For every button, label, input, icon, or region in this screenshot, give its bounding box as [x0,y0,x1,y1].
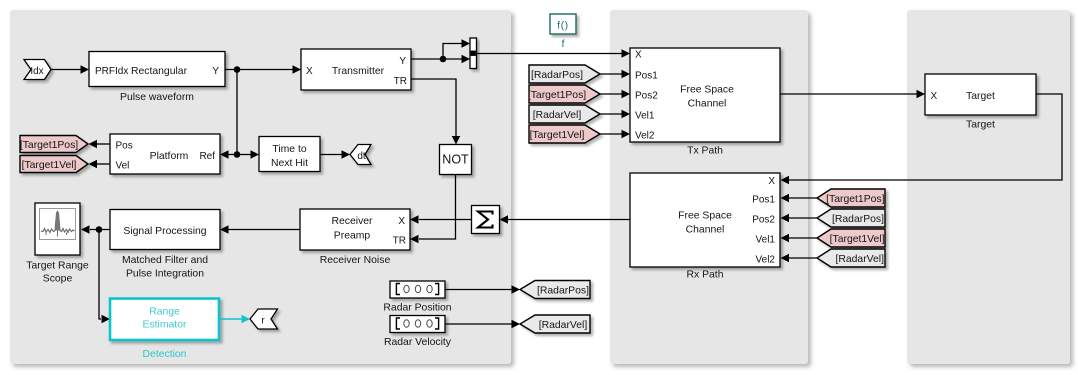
svg-text:[Target1Pos]: [Target1Pos] [826,194,884,205]
output port r [250,309,278,329]
svg-text:Detection: Detection [143,349,187,360]
svg-text:f(): f() [557,21,569,32]
svg-text:PRFIdx: PRFIdx [95,66,128,77]
svg-text:Pulse waveform: Pulse waveform [120,92,194,103]
svg-text:[RadarVel]: [RadarVel] [835,254,884,265]
svg-text:Target: Target [966,91,995,102]
svg-text:X: X [931,91,938,102]
junction dot on scope wire [96,226,103,233]
svg-text:[RadarPos]: [RadarPos] [531,70,583,81]
svg-text:Radar Velocity: Radar Velocity [384,337,452,348]
junction dot at Ref branch [234,151,241,158]
wire from Target1Pos to Pos2 [600,90,630,98]
block NOT [440,145,472,175]
svg-text:X: X [306,66,313,77]
svg-text:Free Space: Free Space [680,85,734,96]
svg-text:Tx Path: Tx Path [687,146,723,157]
wire from RadarPos to Pos1 [600,70,630,78]
goto tag RadarPos [520,281,590,299]
from tag RadarVel (Tx side) [529,105,600,123]
svg-text:Scope: Scope [43,274,73,285]
svg-text:Pos2: Pos2 [635,91,658,102]
svg-text:[Target1Vel]: [Target1Vel] [830,234,885,245]
constant block Radar Velocity [0 0 0] [390,316,445,333]
svg-text:Vel1: Vel1 [635,111,655,122]
wire from Target1Pos to Rx Pos1 [781,194,818,202]
svg-text:Pos1: Pos1 [635,71,658,82]
svg-text:X: X [635,50,642,61]
svg-text:Target: Target [966,120,995,131]
junction dot at Y branch [234,66,241,73]
svg-text:Pos1: Pos1 [752,195,775,206]
from tag Target1Pos (Rx side) [817,189,885,207]
wire Idx to PRFIdx input [51,65,89,73]
block Receiver Preamp (Receiver Noise) [300,209,410,250]
svg-text:[RadarVel]: [RadarVel] [533,110,582,121]
svg-text:Vel: Vel [116,160,130,171]
svg-text:[Target1Vel]: [Target1Vel] [530,130,585,141]
svg-text:[Target1Pos]: [Target1Pos] [528,90,586,101]
svg-text:Receiver Noise: Receiver Noise [320,255,391,266]
svg-text:Free Space: Free Space [678,211,732,222]
svg-text:Channel: Channel [688,99,727,110]
goto tag RadarVel [520,315,590,333]
block Range Estimator (highlighted) [110,299,219,341]
wire to Platform Ref [220,150,237,158]
panel Radar (left area) [10,10,511,364]
from tag RadarPos (Rx side) [817,209,885,227]
wire Y out of PRFIdx to Transmitter X [225,65,301,73]
wire from RadarVel to Rx Vel2 [781,254,818,262]
wire Target output to Rx Path X [781,94,1063,184]
wire Transmitter Y to mux lower input [411,55,470,63]
wire branch up to mux upper input [443,39,470,59]
wire Rx Path output to Sum [500,215,631,223]
block Time to Next Hit [259,137,320,172]
input port Idx [24,60,51,80]
svg-text:Rectangular: Rectangular [131,66,188,77]
svg-text:dt: dt [357,151,366,162]
wire from Target1Vel to Rx Vel1 [781,234,818,242]
wire mux output to Tx Path X [477,49,631,57]
wire from RadarPos to Rx Pos2 [781,214,818,222]
from tag RadarPos (Tx side) [529,65,600,83]
wire Radar Position to goto RadarPos [445,285,520,293]
svg-text:Y: Y [212,66,219,77]
svg-text:Platform: Platform [150,151,189,162]
block f() simulink function [550,14,576,34]
panel Target (right area) [907,10,1070,364]
mux bus bar [470,38,477,69]
svg-text:Pos: Pos [116,140,133,151]
svg-text:Next Hit: Next Hit [271,158,308,169]
svg-text:TR: TR [393,235,406,246]
svg-text:X: X [398,216,405,227]
goto tag Target1Vel (from Platform Vel) [20,156,88,173]
svg-text:Range: Range [149,307,180,318]
wire from Target1Vel to Vel2 [600,130,630,138]
svg-text:Target Range: Target Range [26,261,89,272]
wire Radar Velocity to goto RadarVel [445,320,520,328]
svg-text:Signal Processing: Signal Processing [123,226,206,237]
block Platform [110,134,220,174]
from tag Target1Pos (Tx side) [528,85,600,103]
svg-text:Pos2: Pos2 [752,215,775,226]
goto tag Target1Pos (from Platform Pos) [20,136,88,153]
wire NOT output to Receiver Preamp TR [410,175,456,244]
block PRFIdx Rectangular (Pulse waveform) [89,52,225,87]
svg-text:Idx: Idx [30,66,43,77]
wire branch down to Range Estimator [99,230,110,324]
svg-text:Ref: Ref [199,151,215,162]
wire Platform Vel to goto tag [89,160,111,168]
svg-text:Time to: Time to [272,144,306,155]
svg-text:Channel: Channel [686,225,725,236]
svg-text:Preamp: Preamp [334,231,371,242]
wire Signal Processing out to scope [81,225,110,233]
svg-text:Y: Y [399,56,406,67]
svg-text:[RadarPos]: [RadarPos] [537,286,589,297]
output port dt [350,145,371,165]
constant block Radar Position [0 0 0] [390,281,445,298]
wire from RadarVel to Vel1 [600,110,630,118]
svg-text:Transmitter: Transmitter [332,66,385,77]
svg-text:Vel2: Vel2 [635,131,655,142]
block Free Space Channel Tx Path [630,48,780,142]
wire to Time to Next Hit [237,150,259,158]
wire Receiver Preamp out to Signal Processing [220,225,300,233]
sum block U-sum [472,206,500,234]
block Target [925,74,1036,115]
svg-text:Vel1: Vel1 [756,235,776,246]
svg-text:NOT: NOT [442,152,469,166]
svg-text:[Target1Pos]: [Target1Pos] [20,140,78,151]
wire Transmitter TR to NOT [411,79,460,145]
wire Tx Path output to Target [780,90,925,98]
svg-text:X: X [768,176,775,187]
svg-text:[RadarVel]: [RadarVel] [539,320,588,331]
from tag Target1Vel (Tx side) [529,125,600,143]
svg-text:[RadarPos]: [RadarPos] [832,214,884,225]
svg-text:Estimator: Estimator [143,320,187,331]
svg-text:Pulse Integration: Pulse Integration [126,269,204,280]
from tag RadarVel (Rx side) [817,249,885,267]
svg-text:Receiver: Receiver [332,216,374,227]
wire Platform Pos to goto tag [89,140,111,148]
wire Range Estimator out to r port (cyan) [219,315,250,323]
block Free Space Channel Rx Path [630,173,780,267]
block Target Range Scope [35,203,80,255]
svg-text:TR: TR [394,76,407,87]
from tag Target1Vel (Rx side) [817,229,885,247]
junction dot on Y wire [440,56,447,63]
block Transmitter [301,49,411,90]
svg-text:f: f [562,39,565,50]
svg-text:Vel2: Vel2 [756,255,776,266]
svg-text:[Target1Vel]: [Target1Vel] [22,160,77,171]
block Signal Processing [110,210,220,250]
wire down from Y branch [236,70,238,155]
svg-text:Rx Path: Rx Path [687,270,724,281]
panel Tx/Rx paths (middle area) [610,10,808,364]
wire Sum output to Receiver Preamp X [410,215,472,223]
svg-text:Matched Filter and: Matched Filter and [122,255,208,266]
wire Time to Next Hit to dt port [320,150,350,158]
svg-text:Radar Position: Radar Position [383,303,451,314]
